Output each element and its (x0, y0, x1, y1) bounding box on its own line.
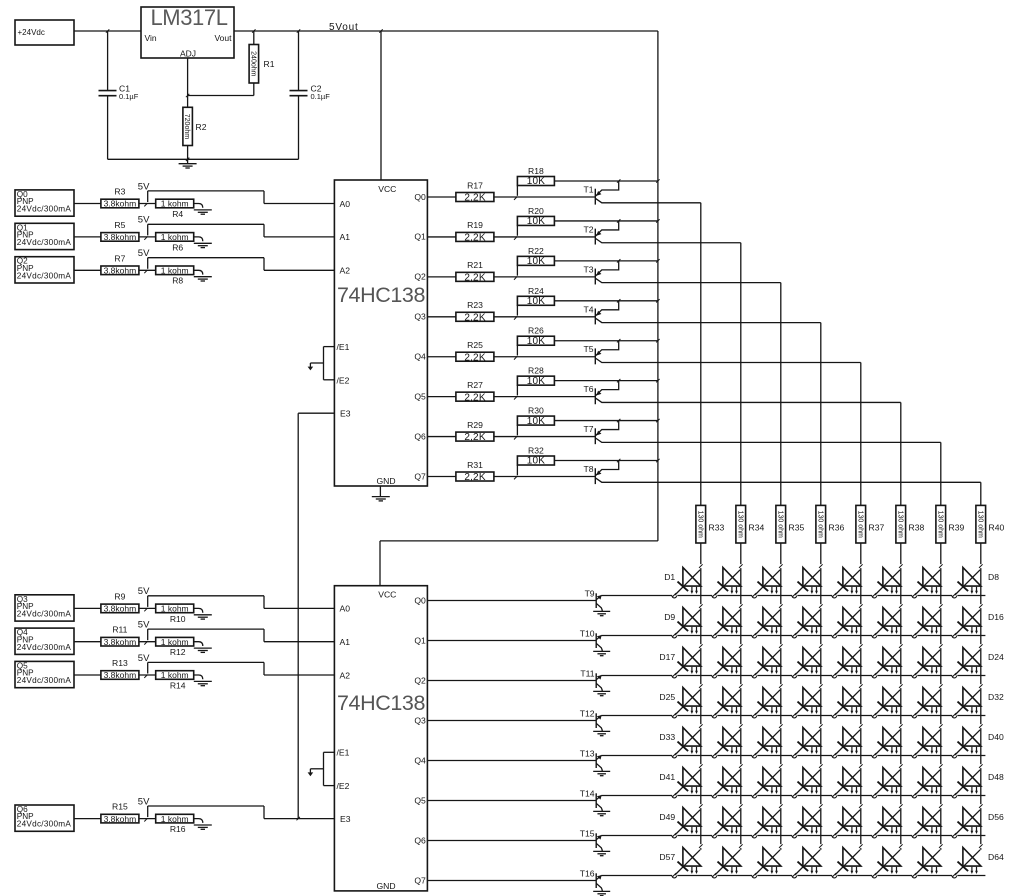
wire Q4 to R25 (427, 356, 456, 358)
wire column 3 lower (780, 543, 782, 850)
LED D22 (872, 648, 901, 678)
svg-text:R40: R40 (989, 523, 1005, 533)
transistor T11 (580, 669, 602, 692)
junction column anode tap (939, 604, 943, 608)
resistor R4 1 kohm (156, 199, 194, 219)
svg-text:720ohm: 720ohm (183, 114, 190, 139)
ground arrow E1 E2 IC2 (308, 772, 314, 776)
svg-text:D8: D8 (988, 572, 999, 582)
LED D34 (712, 728, 741, 758)
svg-text:D25: D25 (659, 692, 675, 702)
resistor R31 2,2K (456, 460, 494, 483)
junction column anode tap (779, 644, 783, 648)
transistor T10 (580, 629, 603, 652)
wire column 4 upper (820, 323, 822, 506)
svg-text:3.8kohm: 3.8kohm (104, 199, 137, 209)
junction emitter tap (617, 179, 620, 182)
svg-text:R32: R32 (528, 446, 544, 456)
svg-text:R24: R24 (528, 286, 544, 296)
junction base node (514, 316, 517, 319)
junction column anode tap (899, 844, 903, 848)
svg-text:T1: T1 (583, 185, 593, 195)
svg-text:R4: R4 (172, 209, 183, 219)
wire Q1 box to R5 (74, 236, 101, 238)
LED D27 (752, 688, 781, 718)
ground T11 (593, 691, 610, 695)
junction column anode tap (899, 764, 903, 768)
wire node to IC pin (148, 224, 335, 237)
wire R6 to ground (194, 237, 203, 241)
wire R9 to R10 (139, 607, 156, 609)
svg-text:Vout: Vout (214, 33, 232, 43)
junction emitter tap (617, 339, 620, 342)
svg-text:A2: A2 (340, 670, 351, 680)
junction column anode tap (899, 684, 903, 688)
svg-text:R23: R23 (467, 300, 483, 310)
svg-text:130 ohm: 130 ohm (976, 511, 983, 538)
svg-text:Q3: Q3 (414, 312, 426, 322)
wire 5V stub (147, 258, 149, 269)
junction column anode tap (859, 564, 863, 568)
resistor R1 240ohm (249, 31, 275, 96)
svg-text:0.1µF: 0.1µF (119, 92, 139, 101)
junction column anode tap (699, 724, 703, 728)
ground T12 (593, 731, 610, 735)
junction rail tap (656, 419, 659, 422)
svg-text:R22: R22 (528, 246, 544, 256)
junction emitter tap (617, 259, 620, 262)
resistor R23 2,2K (456, 300, 494, 323)
svg-text:R6: R6 (172, 242, 183, 252)
junction column anode tap (939, 684, 943, 688)
junction at C2 top (297, 29, 300, 32)
svg-text:3.8kohm: 3.8kohm (104, 670, 137, 680)
transistor T8 (583, 461, 980, 485)
svg-text:D16: D16 (988, 612, 1004, 622)
wire column 8 lower (980, 543, 982, 850)
junction column anode tap (819, 724, 823, 728)
wire LM317 Vout to 5Vout rail (234, 30, 658, 32)
ground R8 (194, 277, 212, 281)
resistor R30 10K (517, 406, 554, 436)
svg-text:T8: T8 (583, 464, 593, 474)
junction column anode tap (979, 564, 983, 568)
svg-text:2,2K: 2,2K (464, 392, 486, 403)
svg-text:10K: 10K (527, 176, 546, 187)
svg-text:D57: D57 (659, 852, 675, 862)
resistor R35 130 ohm (776, 505, 805, 543)
svg-text:T16: T16 (580, 869, 595, 879)
resistor R36 130 ohm (816, 505, 845, 543)
wire Q4 box to R11 (74, 641, 101, 643)
wire column 6 lower (900, 543, 902, 850)
resistor R21 2,2K (456, 260, 494, 283)
resistor R16 1 kohm (156, 814, 194, 834)
resistor R2 720ohm (183, 96, 207, 160)
junction column anode tap (859, 764, 863, 768)
wire node to IC pin (148, 662, 335, 675)
svg-text:R36: R36 (829, 523, 845, 533)
transistor T4 (583, 301, 820, 325)
svg-text:1 kohm: 1 kohm (161, 637, 189, 647)
wire E3 vertical net (297, 413, 299, 818)
svg-text:T5: T5 (583, 344, 593, 354)
wire Q0 to R17 (427, 196, 456, 198)
LED D26 (712, 688, 741, 718)
svg-text:T15: T15 (580, 829, 595, 839)
svg-text:D33: D33 (659, 732, 675, 742)
resistor R7 3.8kohm (101, 253, 139, 275)
wire ADJ pin down (187, 58, 189, 96)
transistor T3 (583, 261, 780, 285)
transistor T16 (580, 869, 603, 892)
LED D51 (752, 808, 781, 838)
svg-text:LM317L: LM317L (150, 5, 227, 30)
svg-text:R37: R37 (869, 523, 885, 533)
wire R25 to T5 base (494, 356, 595, 358)
svg-text:R9: R9 (114, 591, 125, 601)
wire 5V stub (147, 191, 149, 202)
svg-text:T14: T14 (580, 789, 595, 799)
svg-text:/E2: /E2 (337, 781, 350, 791)
junction column anode tap (699, 804, 703, 808)
junction rail tap (656, 379, 659, 382)
wire 5Vout to IC2 VCC (380, 541, 658, 586)
svg-text:R7: R7 (114, 253, 125, 263)
IC U3 74HC138 (334, 586, 427, 891)
ground T13 (593, 771, 610, 775)
svg-text:R31: R31 (467, 460, 483, 470)
wire R4 to ground (194, 204, 203, 208)
wire Q0 to T9 base (427, 600, 596, 602)
resistor R28 10K (517, 366, 554, 396)
junction at VCC drop (379, 29, 382, 32)
junction column anode tap (899, 804, 903, 808)
junction column anode tap (819, 644, 823, 648)
svg-text:Q0: Q0 (414, 595, 426, 605)
wire Q3 to T12 base (427, 720, 596, 722)
wire node to IC pin (148, 629, 335, 642)
wire bottom rail of regulator (108, 158, 299, 160)
LED D43 (752, 768, 781, 798)
LED D9 (664, 608, 701, 638)
LED D32 (952, 688, 1004, 718)
wire VCC1 to 5Vout (380, 31, 382, 180)
svg-text:74HC138: 74HC138 (337, 283, 425, 307)
LED D36 (792, 728, 821, 758)
LED D30 (872, 688, 901, 718)
junction column anode tap (819, 604, 823, 608)
LED D2 (712, 568, 741, 598)
power 5V label (138, 796, 150, 807)
svg-text:Vin: Vin (145, 33, 157, 43)
svg-text:10K: 10K (527, 216, 546, 227)
svg-text:R2: R2 (196, 122, 207, 132)
svg-text:T2: T2 (583, 224, 593, 234)
svg-text:T6: T6 (583, 384, 593, 394)
IC U2 74HC138 (334, 180, 427, 486)
wire column 4 lower (820, 543, 822, 850)
svg-text:2,2K: 2,2K (464, 432, 486, 443)
transistor T15 (580, 829, 603, 852)
svg-text:2,2K: 2,2K (464, 472, 486, 483)
svg-text:10K: 10K (527, 336, 546, 347)
svg-text:T11: T11 (580, 669, 594, 679)
wire 5V stub (147, 629, 149, 640)
LED D16 (952, 608, 1004, 638)
svg-text:R8: R8 (172, 276, 183, 286)
LED D40 (952, 728, 1004, 758)
svg-text:130 ohm: 130 ohm (696, 511, 703, 538)
junction column anode tap (699, 564, 703, 568)
svg-text:R35: R35 (789, 523, 805, 533)
svg-text:R15: R15 (112, 802, 128, 812)
wire column 5 upper (860, 363, 862, 506)
transistor T9 (585, 589, 603, 612)
svg-text:R33: R33 (709, 523, 725, 533)
svg-text:3.8kohm: 3.8kohm (104, 814, 137, 824)
wire R20 to 5V rail (554, 220, 658, 222)
svg-text:Q5: Q5 (414, 795, 426, 805)
transistor T2 (583, 221, 740, 245)
wire R10 to ground (194, 608, 203, 612)
svg-text:R29: R29 (467, 420, 483, 430)
LED D44 (792, 768, 821, 798)
resistor R27 2,2K (456, 380, 494, 403)
svg-text:130 ohm: 130 ohm (936, 511, 943, 538)
junction divider node (144, 608, 147, 611)
svg-text:D41: D41 (659, 772, 675, 782)
svg-text:R26: R26 (528, 326, 544, 336)
wire 5V stub (147, 662, 149, 673)
svg-text:D17: D17 (659, 652, 675, 662)
LED D20 (792, 648, 821, 678)
svg-text:A1: A1 (340, 637, 351, 647)
wire column 2 upper (740, 243, 742, 506)
wire column 6 upper (900, 402, 902, 505)
svg-text:1 kohm: 1 kohm (161, 670, 189, 680)
svg-text:T3: T3 (583, 264, 593, 274)
wire Q5 box to R13 (74, 674, 101, 676)
svg-text:Q5: Q5 (414, 391, 426, 401)
svg-text:130 ohm: 130 ohm (816, 511, 823, 538)
wire R31 to T8 base (494, 476, 595, 478)
LED D33 (659, 728, 700, 758)
svg-text:130 ohm: 130 ohm (776, 511, 783, 538)
svg-text:Q4: Q4 (414, 755, 426, 765)
svg-text:5Vout: 5Vout (329, 22, 359, 33)
wire E3 IC1 (298, 412, 334, 414)
junction base node (514, 237, 517, 240)
wire E1 E2 bracket IC2 (310, 752, 334, 785)
svg-text:R19: R19 (467, 220, 483, 230)
transistor T13 (580, 749, 603, 772)
svg-text:R17: R17 (467, 180, 483, 190)
resistor R40 130 ohm (976, 505, 1005, 543)
transistor T14 (580, 789, 603, 812)
LED D11 (752, 608, 781, 638)
junction column anode tap (699, 604, 703, 608)
junction divider node (144, 818, 147, 821)
svg-text:130 ohm: 130 ohm (856, 511, 863, 538)
LED D49 (659, 808, 700, 838)
LED D48 (952, 768, 1004, 798)
power 5V label (138, 215, 150, 226)
connector +24Vdc input box (15, 20, 74, 45)
LED D4 (792, 568, 821, 598)
resistor R15 3.8kohm (101, 802, 139, 824)
wire E1 E2 bracket IC1 (310, 347, 334, 380)
wire Q1 to T10 base (427, 640, 596, 642)
connector Q1 input box (15, 223, 74, 249)
transistor T5 (583, 341, 860, 365)
wire column 7 lower (940, 543, 942, 850)
junction divider node (144, 270, 147, 273)
LED D60 (792, 848, 821, 878)
junction base node (514, 476, 517, 479)
wire Q6 to T15 base (427, 840, 596, 842)
capacitor C1 (99, 31, 139, 159)
LED D56 (952, 808, 1004, 838)
junction column anode tap (779, 844, 783, 848)
junction column anode tap (859, 684, 863, 688)
svg-text:A0: A0 (340, 199, 351, 209)
svg-text:24Vdc/300mA: 24Vdc/300mA (17, 271, 72, 280)
resistor R17 2,2K (456, 180, 494, 203)
junction column anode tap (819, 564, 823, 568)
junction column anode tap (739, 564, 743, 568)
junction column anode tap (779, 684, 783, 688)
wire Q3 to R23 (427, 316, 456, 318)
svg-text:3.8kohm: 3.8kohm (104, 266, 137, 276)
svg-text:10K: 10K (527, 416, 546, 427)
svg-text:74HC138: 74HC138 (337, 691, 425, 715)
junction column anode tap (899, 644, 903, 648)
resistor R12 1 kohm (156, 637, 194, 657)
resistor R38 130 ohm (896, 505, 925, 543)
svg-text:R34: R34 (749, 523, 765, 533)
wire node to IC pin (148, 191, 335, 204)
svg-text:24Vdc/300mA: 24Vdc/300mA (17, 610, 72, 619)
LED D14 (872, 608, 901, 638)
svg-text:Q7: Q7 (414, 875, 426, 885)
svg-text:Q4: Q4 (414, 352, 426, 362)
ground T16 (593, 891, 610, 895)
wire R27 to T6 base (494, 396, 595, 398)
junction rail tap (656, 219, 659, 222)
wire R12 to ground (194, 642, 203, 646)
wire LED row 3 (601, 675, 985, 677)
resistor R24 10K (517, 286, 554, 316)
resistor R14 1 kohm (156, 670, 194, 690)
svg-text:R20: R20 (528, 206, 544, 216)
wire column 5 lower (860, 543, 862, 850)
junction column anode tap (819, 764, 823, 768)
wire E3 IC2 (264, 818, 334, 820)
junction column anode tap (939, 564, 943, 568)
LED D12 (792, 608, 821, 638)
svg-text:Q6: Q6 (414, 835, 426, 845)
svg-text:T7: T7 (583, 424, 593, 434)
svg-text:2,2K: 2,2K (464, 312, 486, 323)
resistor R29 2,2K (456, 420, 494, 443)
resistor R6 1 kohm (156, 232, 194, 252)
svg-text:R14: R14 (170, 680, 186, 690)
svg-text:D40: D40 (988, 732, 1004, 742)
junction column anode tap (739, 724, 743, 728)
wire +24Vdc to LM317 Vin (74, 30, 141, 32)
power 5V label (138, 248, 150, 259)
connector Q3 input box (15, 595, 74, 621)
LED D55 (912, 808, 941, 838)
resistor R3 3.8kohm (101, 187, 139, 209)
ground T15 (593, 851, 610, 855)
LED D29 (832, 688, 861, 718)
wire R13 to R14 (139, 674, 156, 676)
svg-text:1 kohm: 1 kohm (161, 232, 189, 242)
junction column anode tap (859, 644, 863, 648)
power 5V label (138, 620, 150, 631)
ground T14 (593, 811, 610, 815)
svg-text:24Vdc/300mA: 24Vdc/300mA (17, 205, 72, 214)
junction ground node (186, 158, 189, 161)
wire R22 to 5V rail (554, 260, 658, 262)
svg-text:3.8kohm: 3.8kohm (104, 232, 137, 242)
LED D45 (832, 768, 861, 798)
LED D10 (712, 608, 741, 638)
wire LED row 1 (601, 595, 985, 597)
svg-text:240ohm: 240ohm (249, 51, 256, 76)
wire Q2 box to R7 (74, 269, 101, 271)
junction column anode tap (779, 604, 783, 608)
wire node to IC pin (148, 258, 335, 271)
wire R23 to T4 base (494, 316, 595, 318)
junction column anode tap (979, 604, 983, 608)
junction column anode tap (859, 844, 863, 848)
wire LED row 7 (601, 835, 985, 837)
junction rail tap (656, 459, 659, 462)
svg-text:Q2: Q2 (414, 272, 426, 282)
junction column anode tap (939, 724, 943, 728)
ground R14 (194, 681, 212, 685)
junction column anode tap (979, 764, 983, 768)
junction divider node (144, 675, 147, 678)
transistor T1 (583, 181, 700, 205)
svg-text:2,2K: 2,2K (464, 193, 486, 204)
junction emitter tap (617, 299, 620, 302)
connector Q5 input box (15, 661, 74, 687)
junction column anode tap (739, 644, 743, 648)
svg-text:R21: R21 (467, 260, 483, 270)
LED D18 (712, 648, 741, 678)
wire R7 to R8 (139, 269, 156, 271)
svg-text:1 kohm: 1 kohm (161, 604, 189, 614)
transistor T12 (580, 709, 603, 732)
LED D53 (832, 808, 861, 838)
wire R17 to T1 base (494, 196, 595, 198)
resistor R32 10K (517, 446, 554, 476)
junction column anode tap (819, 804, 823, 808)
svg-text:R3: R3 (114, 187, 125, 197)
svg-text:R38: R38 (909, 523, 925, 533)
svg-text:VCC: VCC (378, 184, 396, 194)
wire 5Vout vertical rail (657, 31, 659, 541)
power 5V label (138, 586, 150, 597)
wire Q1 to R19 (427, 236, 456, 238)
LED D62 (872, 848, 901, 878)
junction column anode tap (739, 764, 743, 768)
wire R3 to R4 (139, 203, 156, 205)
